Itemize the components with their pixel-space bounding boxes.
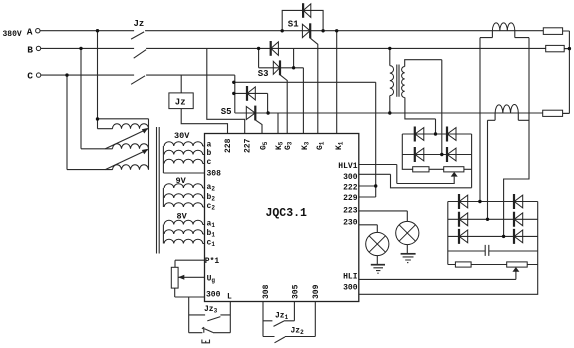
svg-text:300: 300 bbox=[343, 173, 358, 182]
svg-text:30V: 30V bbox=[174, 131, 190, 141]
svg-text:380V: 380V bbox=[3, 30, 22, 39]
svg-text:9V: 9V bbox=[176, 176, 187, 186]
svg-text:S3: S3 bbox=[258, 69, 269, 79]
svg-text:A: A bbox=[27, 26, 33, 37]
svg-text:c: c bbox=[207, 158, 212, 167]
svg-text:C: C bbox=[27, 71, 33, 82]
svg-text:228: 228 bbox=[224, 138, 233, 153]
svg-text:305: 305 bbox=[292, 284, 301, 299]
svg-text:308: 308 bbox=[262, 284, 271, 299]
svg-text:S5: S5 bbox=[221, 107, 232, 117]
svg-text:P*1: P*1 bbox=[205, 257, 220, 266]
svg-text:S1: S1 bbox=[288, 20, 299, 30]
svg-text:Jz: Jz bbox=[134, 19, 145, 29]
svg-text:8V: 8V bbox=[177, 212, 188, 222]
svg-text:B: B bbox=[27, 44, 33, 55]
svg-text:229: 229 bbox=[343, 194, 358, 203]
svg-text:230: 230 bbox=[343, 219, 358, 228]
svg-text:b: b bbox=[207, 149, 212, 158]
svg-text:227: 227 bbox=[244, 138, 253, 153]
svg-text:300: 300 bbox=[343, 284, 358, 293]
svg-text:HLI: HLI bbox=[343, 273, 358, 282]
svg-text:Jz: Jz bbox=[175, 97, 186, 107]
svg-text:308: 308 bbox=[207, 170, 222, 179]
svg-text:300: 300 bbox=[206, 291, 221, 300]
svg-text:222: 222 bbox=[343, 184, 358, 193]
svg-text:JQC3.1: JQC3.1 bbox=[265, 207, 307, 220]
svg-text:L: L bbox=[227, 293, 232, 302]
svg-text:HLV1: HLV1 bbox=[338, 162, 357, 171]
svg-text:309: 309 bbox=[312, 284, 321, 299]
svg-text:223: 223 bbox=[343, 206, 358, 215]
